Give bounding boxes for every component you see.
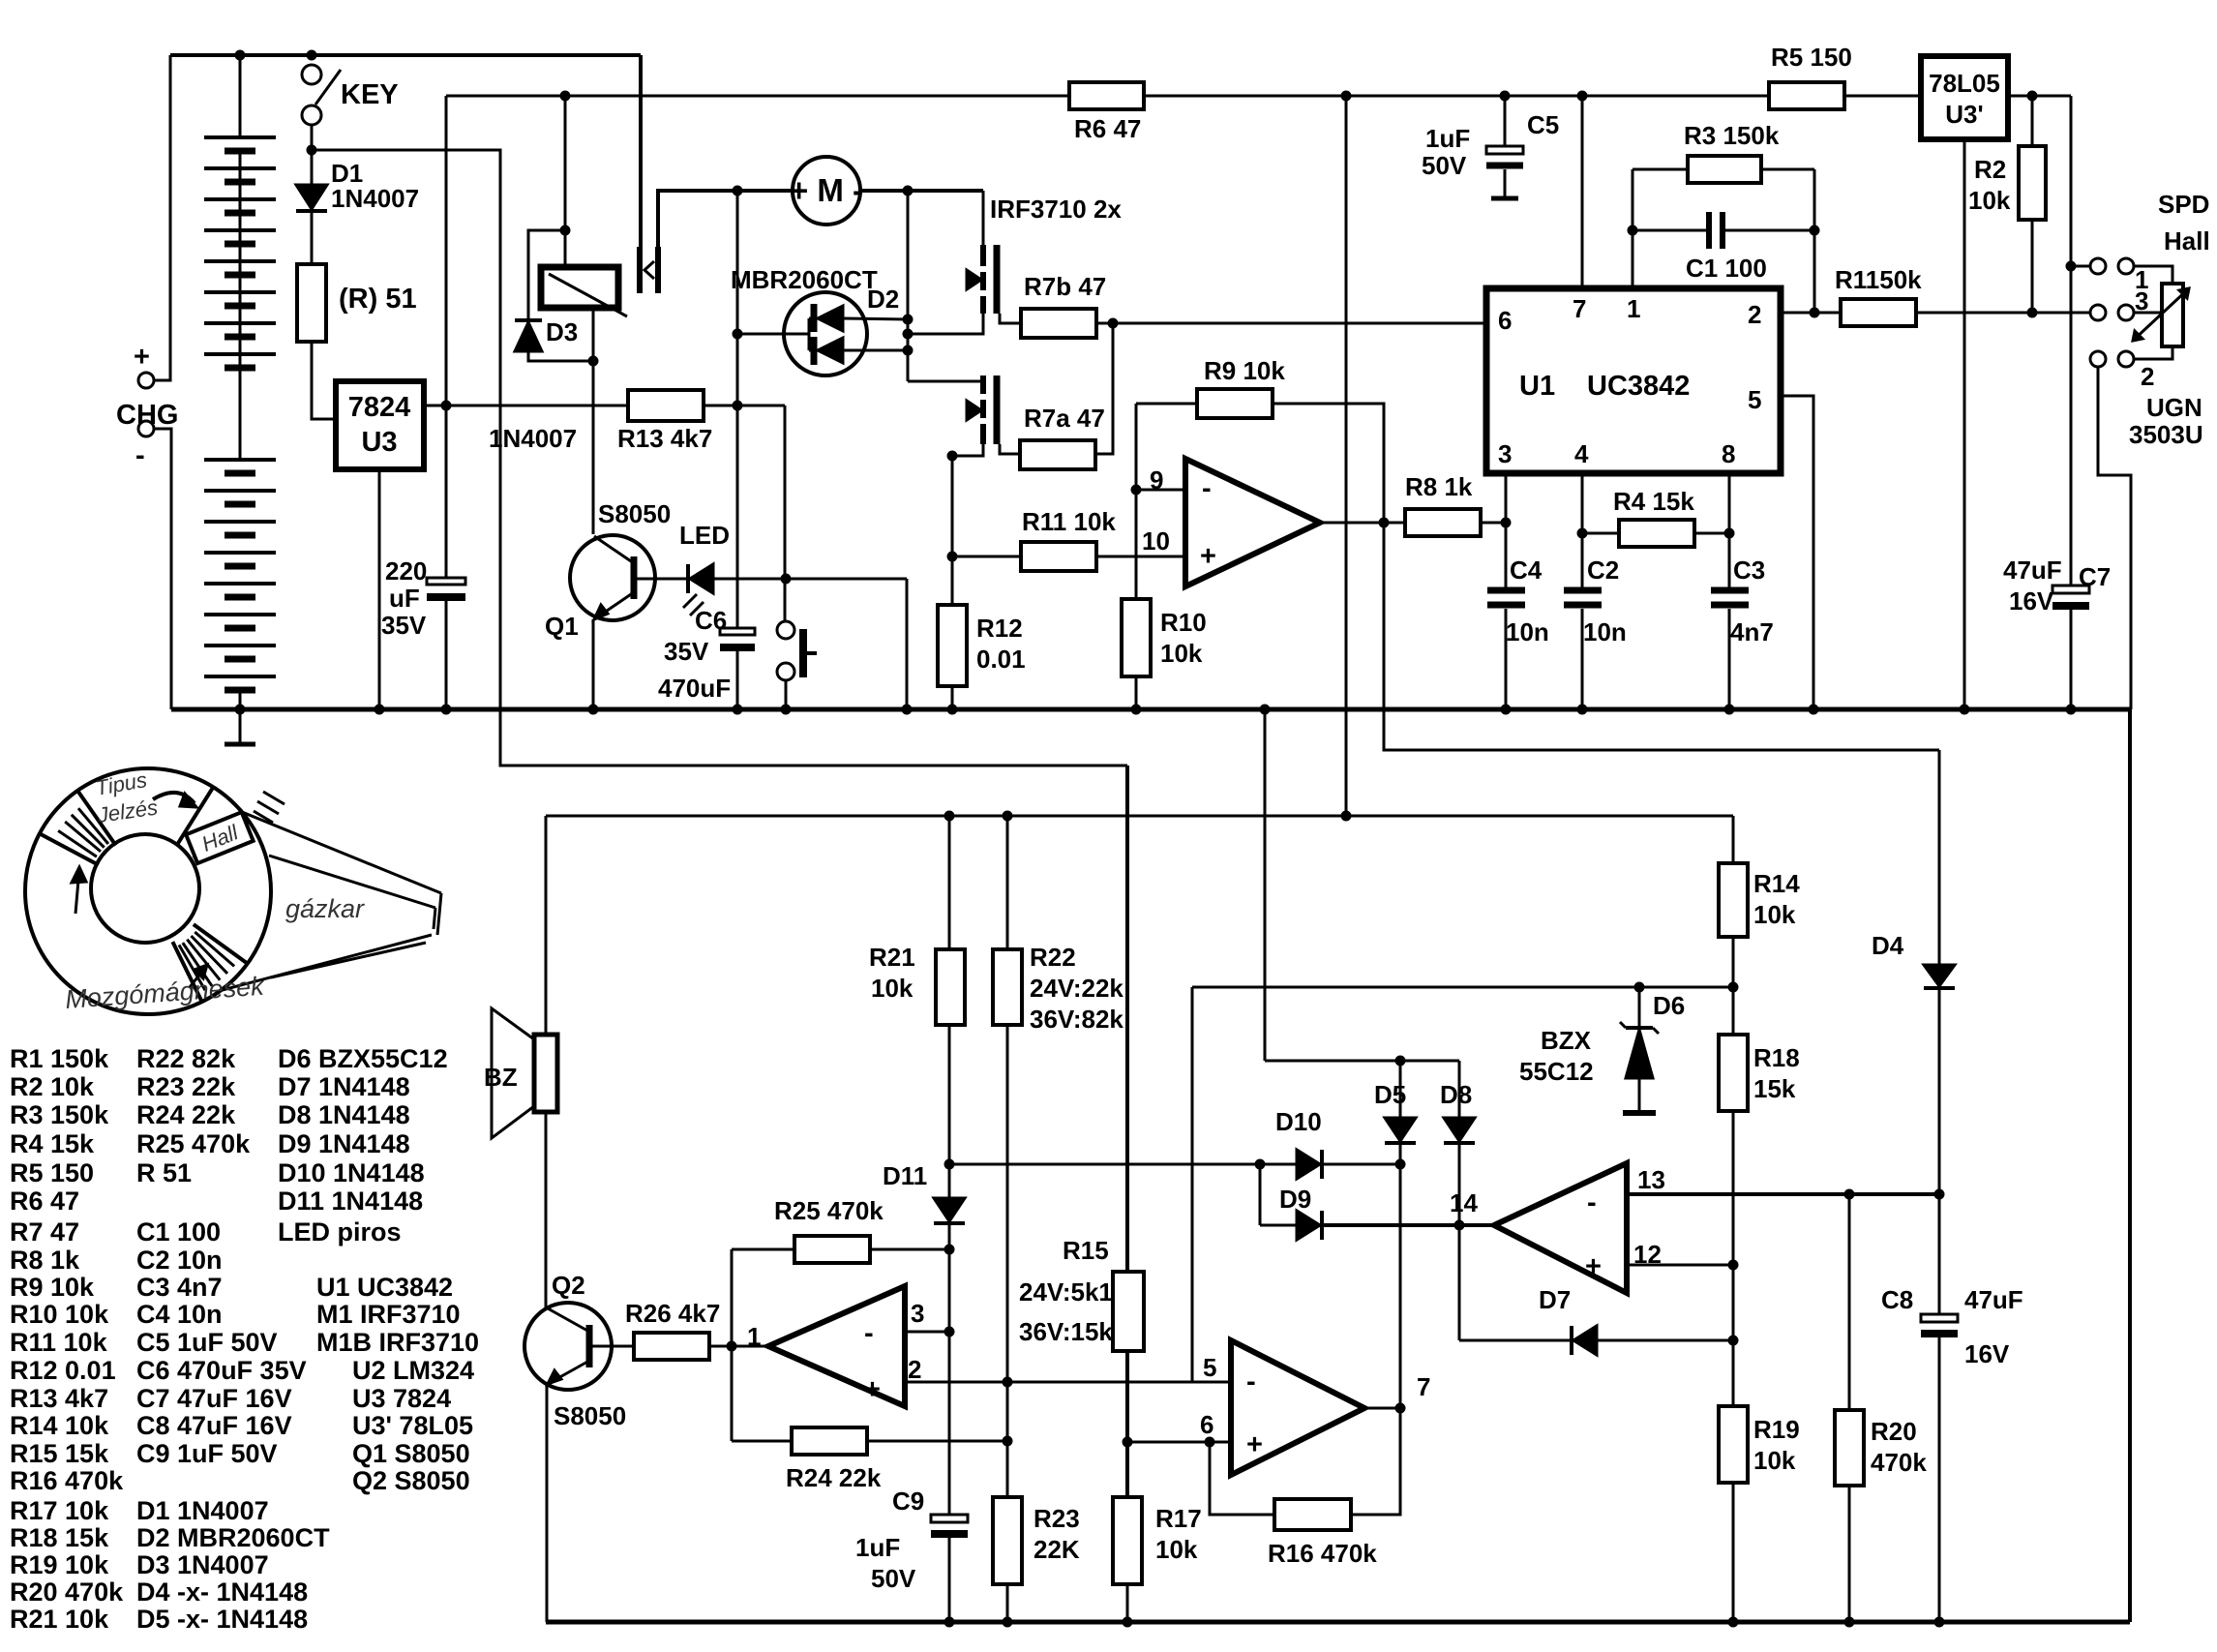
diode D11: [934, 1198, 965, 1221]
svg-text:D6: D6: [1653, 991, 1685, 1020]
svg-text:R21 10k: R21 10k: [10, 1605, 109, 1634]
wire R3 right: [1761, 168, 1814, 171]
node 220uF gnd: [441, 705, 451, 714]
wire R3 left: [1633, 168, 1688, 171]
terminal CHG-: [138, 421, 154, 436]
svg-text:0.01: 0.01: [976, 645, 1026, 674]
capacitor C6 minus plate: [720, 644, 755, 651]
wire R16 loop right: [1351, 1408, 1400, 1515]
svg-text:D11 1N4148: D11 1N4148: [278, 1186, 423, 1216]
svg-text:R4 15k: R4 15k: [1613, 487, 1694, 516]
node R19 gnd: [1728, 1617, 1738, 1627]
wire to lower FET drain: [908, 380, 983, 383]
potentiometer wiper arrow: [2133, 288, 2189, 341]
wire R23 to bus: [1006, 1584, 1009, 1622]
resistor R10: [1122, 599, 1151, 676]
svg-text:470uF: 470uF: [658, 674, 731, 703]
wire pin3 node to C9: [948, 1332, 951, 1518]
diode D2 MBR2060CT circle: [784, 292, 867, 375]
diode D1: [296, 185, 327, 209]
node D5 feed: [1260, 705, 1270, 714]
transistor Q2 collector: [548, 1308, 589, 1332]
svg-text:S8050: S8050: [554, 1401, 626, 1430]
node FET2 source junction: [947, 451, 957, 461]
wire R16 loop left: [1210, 1442, 1274, 1515]
diode D2 lower diode: [818, 338, 843, 363]
wire reference top row: [1192, 986, 1733, 989]
wire R19 to bus: [1732, 1483, 1735, 1622]
node LM324 rail feed: [1341, 811, 1351, 821]
wire 7824 output: [424, 405, 446, 407]
wire 7824 ground pin: [378, 469, 381, 709]
svg-text:Tipus: Tipus: [94, 767, 149, 800]
connector SPD pin2 left: [2090, 351, 2106, 367]
svg-text:R18 15k: R18 15k: [10, 1523, 109, 1552]
wire 220uF to bus: [445, 601, 448, 709]
svg-text:U1: U1: [1519, 371, 1555, 402]
wire R10 to bus: [1135, 676, 1138, 709]
svg-text:6: 6: [1498, 306, 1512, 335]
wire feedback vertical: [731, 1249, 734, 1441]
svg-text:-: -: [1587, 1187, 1597, 1218]
wire D2 internal join: [808, 318, 811, 350]
svg-text:C1 100: C1 100: [1686, 254, 1767, 283]
wire R3 right down: [1813, 169, 1816, 313]
wire hall row1: [2071, 265, 2090, 268]
wire rail R5 to 78L05: [1844, 95, 1921, 98]
wire hall gnd return: [2098, 367, 2131, 709]
node D2 anode junction: [733, 329, 742, 339]
wire 24V rail vertical: [445, 96, 448, 582]
wire opamp output to R8: [1320, 522, 1405, 525]
svg-text:C2: C2: [1587, 556, 1619, 585]
svg-text:D11: D11: [883, 1161, 927, 1190]
svg-text:UC3842: UC3842: [1587, 371, 1690, 402]
wire D9 branch down: [1259, 1164, 1262, 1225]
node hall supply tap: [2066, 261, 2076, 271]
motor M1 circle: [793, 157, 860, 225]
node FET source MBR join: [903, 329, 913, 339]
node C6 gnd: [733, 705, 742, 714]
node R4 left join: [1577, 528, 1587, 538]
resistor R7a: [1020, 440, 1095, 469]
resistor R2: [2019, 146, 2046, 220]
svg-text:Q1: Q1: [545, 612, 579, 641]
svg-text:Q1 S8050: Q1 S8050: [352, 1439, 470, 1468]
wire D7 row: [1458, 1225, 1461, 1340]
svg-text:10n: 10n: [1506, 617, 1549, 646]
svg-text:7824: 7824: [348, 392, 411, 423]
transistor Q2 circle: [524, 1303, 612, 1390]
svg-text:C4: C4: [1510, 556, 1543, 585]
resistor R16: [1274, 1499, 1351, 1530]
svg-text:M1B IRF3710: M1B IRF3710: [316, 1328, 479, 1357]
svg-text:R19: R19: [1753, 1415, 1800, 1444]
node pin2-R23 join: [1003, 1377, 1012, 1387]
pushbutton SW2 bottom contact: [777, 663, 794, 680]
node R20 gnd: [1844, 1617, 1854, 1627]
wire switch node vertical: [907, 191, 910, 381]
svg-text:2: 2: [908, 1355, 921, 1384]
svg-text:D9 1N4148: D9 1N4148: [278, 1129, 410, 1158]
svg-text:C5: C5: [1527, 110, 1559, 139]
node D11-D10 row join: [944, 1159, 954, 1169]
node pin2 join: [1810, 308, 1819, 317]
wire R9 right: [1273, 404, 1384, 523]
svg-text:+: +: [1246, 1429, 1263, 1460]
svg-text:C8 47uF 16V: C8 47uF 16V: [136, 1411, 292, 1440]
svg-text:D10 1N4148: D10 1N4148: [278, 1158, 425, 1187]
wire D4 to C8: [1938, 988, 1941, 1314]
buzzer BZ cone: [492, 1008, 534, 1138]
wire D2 lower cathode out: [843, 349, 908, 352]
wire R25 right: [870, 1248, 949, 1251]
svg-text:SPD: SPD: [2158, 190, 2209, 219]
transistor Q2 base bar: [586, 1325, 593, 1367]
svg-text:R8 1k: R8 1k: [1405, 472, 1473, 501]
node Q1 emitter gnd: [588, 705, 598, 714]
wire D11 cathode: [948, 1223, 951, 1332]
node motor- junction: [903, 186, 913, 195]
capacitor C10 220uF plus plate: [427, 578, 465, 585]
transistor M1B IRF3710 lower: [952, 375, 1020, 456]
diode D10: [1297, 1150, 1320, 1179]
node R7a-R7b join: [1108, 318, 1118, 328]
wire pin13 line: [1627, 1192, 1939, 1196]
op-amp U2 pin9/10 triangle: [1185, 459, 1320, 586]
node D6 top join: [1634, 982, 1644, 992]
svg-text:1uF: 1uF: [1425, 124, 1470, 153]
resistor R1: [1841, 299, 1916, 326]
svg-text:C5 1uF 50V: C5 1uF 50V: [136, 1328, 278, 1357]
svg-text:R2 10k: R2 10k: [10, 1072, 95, 1101]
relay contact bar right: [655, 247, 661, 293]
svg-text:Q2: Q2: [552, 1271, 585, 1300]
resistor R8: [1405, 509, 1481, 536]
svg-text:D2 MBR2060CT: D2 MBR2060CT: [136, 1523, 330, 1552]
wire Q2 emitter to bus: [546, 1384, 549, 1622]
wire R21 top: [948, 816, 951, 949]
svg-text:10k: 10k: [1968, 186, 2011, 215]
svg-text:D6 BZX55C12: D6 BZX55C12: [278, 1044, 448, 1073]
node wire gnd: [902, 705, 912, 714]
svg-text:78L05: 78L05: [1929, 69, 2000, 98]
wire contact to motor+: [658, 191, 793, 247]
node relay feed: [560, 91, 570, 101]
battery stack BT1: [204, 55, 276, 709]
capacitor C8 plus plate: [1921, 1314, 1958, 1322]
svg-text:36V:82k: 36V:82k: [1030, 1005, 1123, 1034]
svg-text:IRF3710 2x: IRF3710 2x: [990, 195, 1122, 224]
svg-text:R18: R18: [1753, 1043, 1800, 1072]
node battery+ on top bus: [235, 50, 245, 60]
wire 5V to C7: [2070, 96, 2073, 589]
node KEY-D1 junction: [307, 145, 316, 155]
svg-text:R21: R21: [869, 943, 915, 972]
node output-R9 join: [1379, 518, 1389, 527]
LED light arrows: [683, 594, 697, 608]
pushbutton SW2 top contact: [777, 621, 794, 639]
svg-text:U1 UC3842: U1 UC3842: [316, 1273, 453, 1302]
wire D11 anode: [948, 1164, 951, 1198]
node R8-pin3 join: [1501, 518, 1511, 527]
LED D12: [686, 564, 690, 593]
svg-text:R6 47: R6 47: [1074, 114, 1141, 143]
parts list table: [10, 1044, 479, 1634]
diode D9: [1297, 1211, 1320, 1240]
node C6 top tap: [733, 186, 742, 195]
resistor R26: [634, 1333, 709, 1360]
svg-text:R5 150: R5 150: [10, 1158, 94, 1187]
svg-text:D8 1N4148: D8 1N4148: [278, 1100, 410, 1129]
wire pin12 line: [1627, 1264, 1733, 1267]
wire D5 anode feed: [1264, 709, 1267, 1061]
svg-text:R2: R2: [1974, 155, 2006, 184]
svg-text:S8050: S8050: [598, 499, 671, 528]
node 7824 output junction: [441, 401, 451, 410]
wire relay to Q1 collector: [592, 361, 595, 534]
svg-text:uF: uF: [389, 584, 420, 613]
wire R1 to hall: [1916, 312, 2090, 315]
wire D10 cathode: [1322, 1163, 1400, 1166]
svg-text:D7 1N4148: D7 1N4148: [278, 1072, 410, 1101]
connector SPD pin2 right: [2118, 351, 2134, 367]
svg-text:R12: R12: [976, 614, 1023, 643]
transistor Q1 emitter: [594, 592, 634, 619]
capacitor C6 plus plate: [720, 628, 755, 635]
svg-text:+: +: [1200, 541, 1216, 572]
node pin6 join: [1123, 1437, 1132, 1447]
node D2 upper cathode: [903, 315, 913, 324]
pushbutton SW2 actuator: [799, 629, 807, 677]
resistor R11: [1021, 542, 1096, 571]
wire R11 left: [952, 556, 1021, 558]
svg-text:13: 13: [1637, 1165, 1665, 1194]
svg-text:R26 4k7: R26 4k7: [625, 1299, 720, 1328]
svg-text:47uF: 47uF: [1964, 1285, 2023, 1314]
svg-text:24V:22k: 24V:22k: [1030, 974, 1123, 1003]
node R23 gnd: [1003, 1617, 1012, 1627]
svg-text:KEY: KEY: [341, 79, 399, 110]
svg-text:3: 3: [1498, 439, 1512, 468]
wire R13 right: [704, 405, 785, 407]
wire pin7 out: [1364, 1407, 1400, 1410]
svg-text:LED piros: LED piros: [278, 1217, 402, 1247]
wire D9 cathode to pin14: [1322, 1223, 1494, 1227]
wire R4 right: [1694, 532, 1729, 535]
wire C2 gnd: [1581, 609, 1584, 709]
svg-text:D5 -x- 1N4148: D5 -x- 1N4148: [136, 1605, 308, 1634]
svg-text:M1 IRF3710: M1 IRF3710: [316, 1300, 461, 1329]
wire main ground bus: [171, 707, 2130, 712]
wire 78L05 gnd: [1963, 139, 1966, 709]
wire pot bottom: [2134, 346, 2172, 359]
svg-text:CHG: CHG: [116, 400, 178, 431]
wire R20 top: [1848, 1194, 1851, 1410]
wire KEY to D1: [311, 125, 314, 185]
svg-text:C3 4n7: C3 4n7: [136, 1273, 223, 1302]
node KEY top on top bus: [307, 50, 316, 60]
svg-text:2: 2: [1748, 300, 1761, 329]
diode D2 upper diode: [818, 306, 843, 331]
node pin3-D11 join: [944, 1327, 954, 1337]
wire R8 to pin3: [1481, 522, 1506, 525]
wire C4 gnd: [1505, 609, 1508, 709]
svg-text:R11 10k: R11 10k: [10, 1328, 108, 1357]
svg-text:U3' 78L05: U3' 78L05: [352, 1411, 473, 1440]
resistor R23: [993, 1497, 1022, 1584]
svg-text:1: 1: [1627, 294, 1640, 323]
resistor R5: [1769, 82, 1844, 109]
svg-text:R22: R22: [1030, 943, 1076, 972]
node R10 gnd: [1131, 705, 1141, 714]
diode D5: [1399, 1061, 1402, 1118]
svg-text:R17: R17: [1155, 1504, 1202, 1533]
wire C3 gnd: [1728, 609, 1731, 709]
node R24-R23 join: [1003, 1436, 1012, 1446]
wire D2 upper cathode out: [843, 318, 908, 319]
switch KEY contact top: [302, 65, 321, 84]
svg-text:(R) 51: (R) 51: [339, 284, 417, 315]
wire button bottom: [785, 680, 788, 709]
resistor R13: [628, 390, 704, 421]
svg-text:+: +: [134, 342, 150, 373]
resistor R7b: [1021, 309, 1096, 338]
svg-text:16V: 16V: [2009, 586, 2054, 616]
wire D5-D8 top row: [1265, 1060, 1459, 1063]
wire R9 left: [1136, 403, 1197, 405]
wire 78L05 out: [2008, 95, 2071, 98]
svg-text:10k: 10k: [871, 974, 914, 1003]
wire R2 top: [2031, 96, 2034, 146]
svg-text:R5 150: R5 150: [1771, 43, 1852, 72]
svg-text:1: 1: [747, 1322, 761, 1351]
IC U1 UC3842 box: [1486, 288, 1781, 473]
connector SPD pin1 right: [2118, 258, 2134, 274]
svg-text:55C12: 55C12: [1519, 1057, 1594, 1086]
op-amp U2 pin1/2/3 triangle: [768, 1286, 905, 1406]
connector SPD pin1 left: [2090, 258, 2106, 274]
svg-text:D4 -x- 1N4148: D4 -x- 1N4148: [136, 1577, 308, 1607]
svg-text:U3 7824: U3 7824: [352, 1384, 451, 1413]
wire D4 feed vertical: [1938, 750, 1941, 965]
capacitor C7: [2052, 586, 2089, 593]
capacitor C1: [1706, 212, 1712, 249]
node battery- on ground bus: [235, 705, 245, 714]
wire 24V rail after R6: [1144, 95, 1769, 98]
capacitor C8 minus plate: [1921, 1330, 1958, 1337]
wire pin2 reference line: [905, 1381, 1231, 1384]
svg-text:1N4007: 1N4007: [489, 424, 577, 453]
svg-text:10: 10: [1142, 526, 1170, 556]
svg-text:C8: C8: [1881, 1285, 1913, 1314]
wire pin3 down: [1505, 473, 1508, 590]
resistor R6: [1069, 82, 1144, 109]
svg-text:R13 4k7: R13 4k7: [617, 424, 712, 453]
wire D3 cathode link: [528, 230, 565, 320]
svg-text:C2 10n: C2 10n: [136, 1246, 223, 1275]
node pin7 join: [1395, 1403, 1405, 1413]
wire FET source to R12: [951, 456, 954, 605]
wire LED to node: [713, 578, 907, 581]
svg-text:1N4007: 1N4007: [331, 184, 419, 213]
wire pin1 up: [1632, 169, 1634, 288]
wire LM324 supply bus: [546, 815, 1733, 818]
node 5V out: [2027, 91, 2037, 101]
svg-text:10k: 10k: [1753, 1446, 1796, 1475]
diode D8: [1458, 1061, 1461, 1118]
wire R24 right: [867, 1440, 1007, 1443]
svg-text:3503U: 3503U: [2129, 420, 2203, 449]
svg-text:-: -: [135, 440, 145, 471]
buzzer BZ body: [534, 1035, 557, 1112]
relay K1 coil box: [541, 267, 618, 308]
svg-text:R22 82k: R22 82k: [136, 1044, 236, 1073]
wire C6 node vertical: [736, 191, 739, 632]
svg-text:C7: C7: [2079, 562, 2111, 591]
wire left rail from top bus to CHG+: [154, 55, 170, 380]
wire pin8 down: [1728, 473, 1731, 590]
svg-text:470k: 470k: [1871, 1448, 1927, 1477]
svg-text:D5: D5: [1374, 1080, 1406, 1109]
svg-text:35V: 35V: [381, 611, 427, 640]
capacitor C9 minus plate: [931, 1530, 968, 1538]
svg-text:47uF: 47uF: [2003, 556, 2062, 585]
node R16 left join: [1205, 1437, 1214, 1447]
svg-text:R15: R15: [1063, 1236, 1109, 1265]
node button gnd: [781, 705, 791, 714]
wire R18 to R19: [1732, 1111, 1735, 1406]
svg-text:C4 10n: C4 10n: [136, 1300, 223, 1329]
transistor Q1 collector: [594, 536, 634, 563]
wire C1 right: [1723, 229, 1814, 232]
svg-text:36V:15k: 36V:15k: [1019, 1317, 1113, 1346]
hand-drawn wheel sketch: [25, 768, 441, 1014]
svg-text:R19 10k: R19 10k: [10, 1550, 109, 1579]
wire 7824 out to R13: [446, 405, 628, 407]
svg-text:10k: 10k: [1753, 900, 1796, 929]
wire R4 left: [1582, 532, 1619, 535]
wire C7 gnd: [2070, 610, 2073, 709]
node C3 gnd: [1724, 705, 1734, 714]
svg-text:U3: U3: [361, 427, 397, 458]
wire R11 to opamp pin10: [1096, 556, 1185, 558]
node C2 gnd: [1577, 705, 1587, 714]
svg-text:R25 470k: R25 470k: [136, 1129, 251, 1158]
resistor R21: [936, 949, 965, 1025]
node pin9 junction: [1131, 485, 1141, 495]
svg-text:-: -: [864, 1318, 874, 1349]
relay K1 coil diagonal: [549, 274, 627, 316]
svg-text:220: 220: [385, 556, 427, 586]
node relay coil bottom: [588, 356, 598, 366]
wire relay right leg: [592, 308, 595, 361]
wire pin7 to D5 row: [1399, 1164, 1402, 1408]
node R22 top: [1003, 811, 1012, 821]
node pin1-C1 join: [1628, 225, 1637, 235]
svg-text:U3': U3': [1945, 100, 1983, 129]
wire R22 bottom: [1006, 1025, 1009, 1382]
connector SPD pin3 right: [2118, 305, 2134, 320]
wire pin4 down: [1581, 473, 1584, 590]
wire R7a loop: [1095, 323, 1113, 454]
svg-text:50V: 50V: [871, 1564, 916, 1593]
svg-text:7: 7: [1573, 294, 1586, 323]
svg-text:7: 7: [1417, 1372, 1430, 1401]
node pin13-C8 join: [1934, 1189, 1944, 1199]
resistor R14: [1719, 863, 1748, 937]
terminal CHG+: [138, 373, 154, 388]
